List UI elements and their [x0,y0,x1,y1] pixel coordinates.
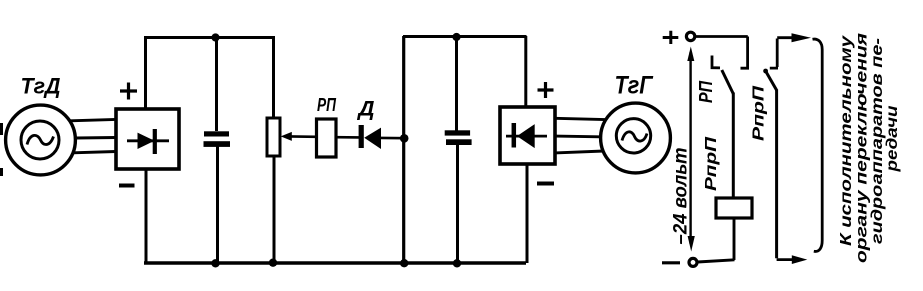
voltage dimension arrow [689,52,691,244]
svg-text:Д: Д [356,98,374,121]
svg-text:ТгД: ТгД [21,74,61,99]
junction dot bottom potentiometer [269,259,277,267]
wire rectifier2 bottom to rail [526,164,529,263]
wire RP coil to diode D [336,136,359,139]
wire gen2 phase 2 [555,135,600,139]
wire blade RP down to coil RprP [732,93,735,199]
contact RP fixed terminal [712,56,720,68]
wire gen1 phase 3 [73,152,116,153]
generator TgG sine wave [622,132,647,141]
plus label rectifier 1 [120,83,137,100]
svg-text:органу переключения: органу переключения [854,32,871,263]
wire rectifier1 top to rail [144,37,147,110]
junction dot bottom loop2 left [400,259,408,267]
wire to actuator bottom [777,258,794,261]
bottom rail common [144,261,526,264]
wire gen1 phase 2 [76,136,116,139]
svg-text:РП: РП [317,95,337,115]
plus label rectifier 2 [538,82,554,98]
minus label rectifier 1 [119,184,135,188]
junction dot top capacitor 1 [211,33,219,41]
svg-text:РП: РП [696,80,716,103]
wire from plus terminal [696,35,748,38]
top rail loop 1 [144,36,275,39]
relay coil RP [317,119,337,157]
wire blade RprP down [775,90,778,259]
capacitor C1 [215,36,218,131]
diode D [359,125,364,148]
wire loop2 right vertical to rectifier 2 [524,36,527,107]
wire gen2 phase 1 [555,118,605,119]
junction dot diode to loop2 [400,134,409,143]
wire rectifier1 bottom to rail [145,169,148,264]
minus label rectifier 2 [537,182,554,186]
top rail loop 2 [403,35,527,38]
brace to actuator [813,39,823,251]
junction dot bottom capacitor 2 [453,259,461,267]
rectifier box 2 [500,107,555,164]
wiper arrow to potentiometer [289,135,317,138]
svg-text:К исполнительному: К исполнительному [838,35,855,246]
scan mark left edge [0,123,3,176]
wire gen2 phase 3 [555,151,604,153]
generator TgD outer circle [6,105,76,175]
minus label supply [662,261,680,264]
capacitor C2 [455,36,458,131]
terminal bottom [689,258,697,266]
plus label supply [663,31,679,44]
fixed contact lead A [741,37,750,69]
rectifier box 1 [116,109,179,169]
diode inside rectifier 2 [506,135,547,138]
contact RprP blade [763,69,768,74]
junction dot bottom capacitor 1 [211,259,219,267]
svg-text:редачи: редачи [884,105,901,172]
svg-text:–24 вольт: –24 вольт [671,147,692,244]
potentiometer [267,118,280,156]
wire gen1 phase 1 [70,119,116,120]
generator TgG inner circle [616,119,650,153]
junction dot top capacitor 2 [452,33,460,41]
diode inside rectifier 1 [127,139,169,142]
contact RP blade [722,70,734,94]
fixed contact lead B with wire to actuator top [770,39,778,69]
wire coil RprP to minus terminal [698,218,735,262]
wire loop1 right vertical top [272,36,275,119]
svg-text:ТгГ: ТгГ [615,72,654,100]
svg-text:РпрП: РпрП [703,136,720,191]
loop2 left vertical [402,36,405,264]
generator TgD sine wave [27,135,54,144]
generator TgD inner circle [21,121,59,159]
generator TgG outer circle [601,103,671,173]
terminal top [686,32,694,40]
svg-text:РпрП: РпрП [751,85,768,141]
relay coil RprP [716,198,752,218]
